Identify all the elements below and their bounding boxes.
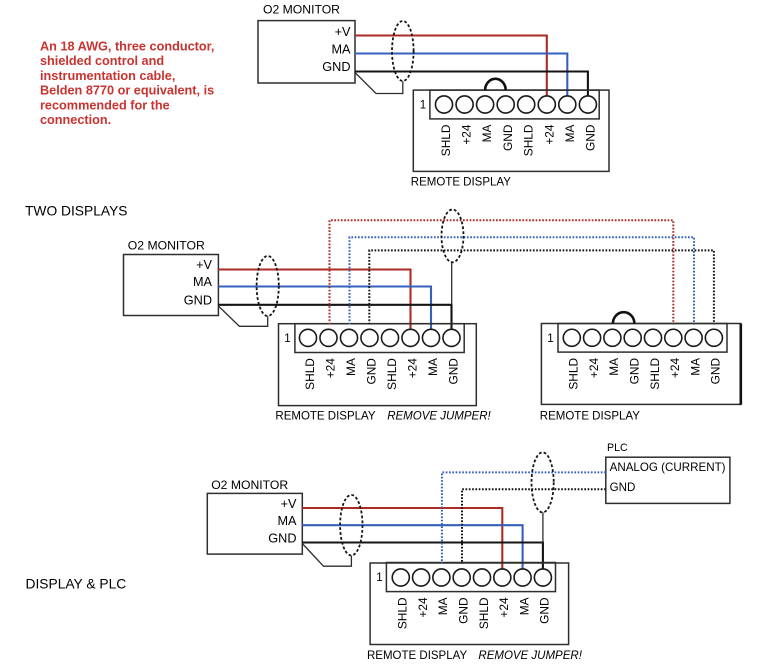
svg-text:GND: GND	[268, 531, 296, 545]
section heading DISPLAY & PLC	[26, 577, 127, 592]
svg-text:REMOVE JUMPER!: REMOVE JUMPER!	[478, 650, 582, 662]
wire GND black U1 to TB1 pin8	[355, 72, 588, 97]
svg-text:MA: MA	[426, 358, 440, 376]
section heading TWO DISPLAYS	[25, 204, 127, 219]
svg-text:REMOTE DISPLAY: REMOTE DISPLAY	[275, 411, 375, 423]
terminal circles TB4	[392, 569, 551, 586]
cable shield ellipse (middle cable 1)	[257, 256, 279, 316]
svg-text:+24: +24	[405, 358, 419, 379]
cable shield ellipse (bottom cable 2)	[532, 452, 554, 512]
shield drain wire (bottom cable 2)	[542, 512, 544, 542]
O2 monitor box U2 (middle)	[124, 239, 219, 316]
svg-text:SHLD: SHLD	[385, 358, 399, 390]
terminal labels TB2	[303, 358, 461, 390]
svg-text:GND: GND	[322, 60, 350, 74]
terminal circles TB1	[435, 96, 596, 113]
wire +24 dotted red TB2 pin2 to TB3 pin6	[330, 220, 674, 324]
svg-text:1: 1	[284, 333, 290, 345]
svg-text:GND: GND	[610, 481, 636, 494]
pin 1 label TB3	[547, 333, 553, 345]
svg-text:+24: +24	[668, 358, 682, 379]
wire MA blue U1 to TB1 pin7	[355, 54, 567, 97]
svg-text:connection.: connection.	[40, 113, 111, 127]
svg-text:O2 MONITOR: O2 MONITOR	[128, 239, 205, 253]
svg-text:shielded control and: shielded control and	[40, 54, 164, 68]
wire +V red U2 to TB2 pin6	[218, 270, 410, 331]
cable shield ellipse (top cable)	[392, 21, 414, 81]
terminal circles TB2	[299, 329, 460, 346]
svg-text:+24: +24	[460, 124, 474, 145]
svg-text:GND: GND	[457, 597, 471, 624]
caption REMOVE JUMPER! (bottom)	[478, 650, 582, 662]
pin 1 label TB2	[284, 333, 290, 345]
wire MA blue U2 to TB2 pin7	[218, 287, 431, 331]
svg-text:MA: MA	[331, 42, 351, 56]
svg-text:DISPLAY & PLC: DISPLAY & PLC	[26, 577, 127, 592]
caption REMOTE DISPLAY (middle right)	[540, 411, 640, 423]
svg-text:Belden 8770 or equivalent, is: Belden 8770 or equivalent, is	[40, 84, 214, 98]
svg-text:SHLD: SHLD	[648, 357, 662, 389]
svg-text:instrumentation cable,: instrumentation cable,	[40, 69, 175, 83]
shield drain wire (middle cable 2)	[451, 262, 453, 305]
svg-text:MA: MA	[480, 124, 494, 142]
svg-text:MA: MA	[193, 275, 213, 289]
cable shield ellipse (bottom cable 1)	[340, 495, 362, 556]
svg-text:TWO DISPLAYS: TWO DISPLAYS	[25, 204, 127, 219]
svg-text:ANALOG (CURRENT): ANALOG (CURRENT)	[610, 461, 726, 474]
caption REMOVE JUMPER! (middle)	[387, 411, 491, 423]
svg-text:+24: +24	[497, 597, 511, 618]
svg-text:REMOVE JUMPER!: REMOVE JUMPER!	[387, 411, 491, 423]
svg-text:GND: GND	[364, 358, 378, 385]
pin 1 label TB4	[376, 572, 382, 584]
svg-text:MA: MA	[277, 514, 297, 528]
caption REMOTE DISPLAY (top)	[411, 177, 511, 189]
O2 monitor box U1 (top)	[258, 3, 355, 83]
svg-text:+V: +V	[335, 25, 351, 39]
terminal block TB2 outline	[279, 324, 477, 406]
svg-text:recommended for the: recommended for the	[40, 98, 170, 112]
shield drain wire (top)	[355, 73, 403, 94]
pin 1 label TB1	[420, 100, 426, 112]
svg-text:+V: +V	[281, 497, 297, 511]
svg-text:GND: GND	[184, 293, 212, 307]
svg-text:MA: MA	[344, 358, 358, 376]
terminal block TB3 outline	[541, 324, 740, 405]
svg-text:MA: MA	[563, 124, 577, 142]
svg-text:MA: MA	[607, 358, 621, 376]
note: red cable recommendation text	[40, 40, 214, 128]
svg-text:SHLD: SHLD	[567, 357, 581, 389]
svg-text:+24: +24	[587, 358, 601, 379]
caption REMOTE DISPLAY (middle left)	[275, 411, 375, 423]
jumper J1 between TB1 pins 3-4	[485, 79, 506, 90]
O2 monitor box U3 (bottom)	[207, 478, 302, 554]
svg-text:GND: GND	[628, 358, 642, 385]
svg-text:GND: GND	[584, 124, 598, 151]
svg-text:1: 1	[420, 100, 426, 112]
svg-text:+24: +24	[542, 124, 556, 145]
svg-text:+24: +24	[416, 597, 430, 618]
wire analog current dotted blue PLC to TB4 pin3	[442, 472, 606, 563]
wire MA dotted blue TB2 pin3 to TB3 pin7	[350, 237, 695, 324]
terminal labels TB3	[567, 357, 723, 389]
terminal block TB4 outline	[370, 563, 568, 645]
svg-text:GND: GND	[709, 358, 723, 385]
terminal strip TB4	[386, 563, 555, 592]
svg-text:SHLD: SHLD	[522, 124, 536, 156]
wire +V red U3 to TB4 pin6	[302, 508, 502, 570]
PLC box U4	[606, 442, 730, 503]
svg-text:1: 1	[547, 333, 553, 345]
terminal block TB1 outline	[413, 90, 609, 171]
cable shield ellipse (middle cable 2)	[442, 210, 464, 263]
terminal labels TB4	[396, 597, 552, 629]
svg-text:SHLD: SHLD	[477, 597, 491, 629]
wire +V red U1 to TB1 pin6	[355, 36, 547, 97]
svg-text:REMOTE DISPLAY: REMOTE DISPLAY	[411, 177, 511, 189]
wire GND black U2 to TB2 pin8	[218, 305, 451, 330]
terminal strip TB2	[295, 324, 464, 353]
svg-text:An 18 AWG, three conductor,: An 18 AWG, three conductor,	[40, 40, 214, 54]
svg-text:SHLD: SHLD	[439, 124, 453, 156]
terminal strip TB3	[558, 324, 727, 353]
wire GND black U3 to TB4 pin8	[302, 543, 543, 570]
svg-text:SHLD: SHLD	[396, 597, 410, 629]
svg-text:REMOTE DISPLAY: REMOTE DISPLAY	[540, 411, 640, 423]
terminal circles TB3	[563, 329, 722, 346]
svg-text:PLC: PLC	[607, 442, 628, 454]
svg-text:O2 MONITOR: O2 MONITOR	[263, 3, 340, 17]
terminal labels TB1	[439, 124, 598, 156]
shield drain wire (bottom cable 1)	[302, 544, 351, 567]
terminal strip TB1	[430, 90, 599, 119]
svg-text:O2 MONITOR: O2 MONITOR	[211, 478, 288, 492]
svg-text:+24: +24	[323, 358, 337, 379]
wire GND dotted black PLC to TB4 pin4	[462, 489, 606, 563]
jumper J2 between TB3 pins 3-4	[613, 312, 635, 323]
svg-text:MA: MA	[436, 597, 450, 615]
svg-text:1: 1	[376, 572, 382, 584]
svg-text:MA: MA	[517, 597, 531, 615]
svg-text:GND: GND	[538, 597, 552, 624]
svg-text:+V: +V	[196, 258, 212, 272]
svg-text:GND: GND	[446, 358, 460, 385]
svg-text:REMOTE DISPLAY: REMOTE DISPLAY	[367, 650, 467, 662]
svg-text:MA: MA	[688, 358, 702, 376]
wire MA blue U3 to TB4 pin7	[302, 525, 522, 569]
svg-text:GND: GND	[501, 124, 515, 151]
shield drain wire (middle cable 1)	[218, 306, 267, 326]
svg-text:SHLD: SHLD	[303, 358, 317, 390]
wire GND dotted black TB2 pin4 to TB3 pin8	[369, 250, 714, 324]
caption REMOTE DISPLAY (bottom)	[367, 650, 467, 662]
